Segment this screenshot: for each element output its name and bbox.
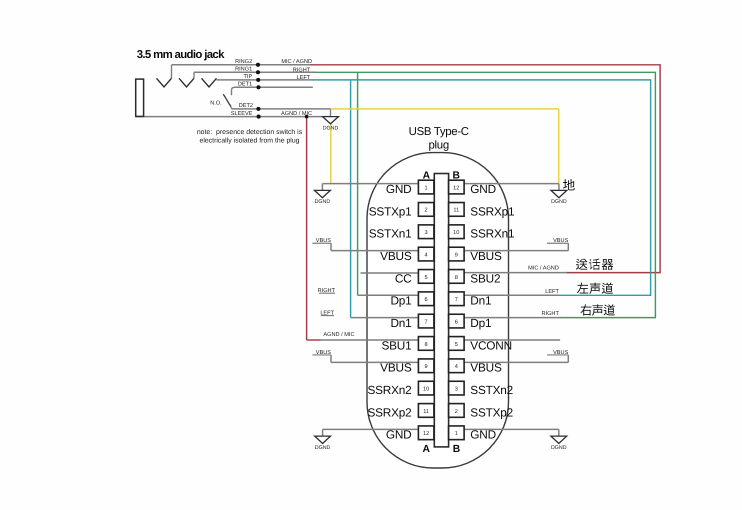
svg-text:8: 8	[425, 342, 428, 348]
svg-text:B: B	[453, 444, 460, 455]
svg-text:B: B	[452, 170, 459, 181]
svg-text:SSTXp1: SSTXp1	[369, 204, 412, 218]
svg-text:DET2: DET2	[239, 103, 253, 109]
svg-text:MIC / AGND: MIC / AGND	[281, 58, 312, 65]
svg-text:VBUS: VBUS	[316, 238, 332, 244]
svg-text:LEFT: LEFT	[545, 289, 559, 295]
svg-text:SSRXn2: SSRXn2	[367, 383, 411, 397]
svg-text:1: 1	[425, 185, 428, 191]
svg-text:VBUS: VBUS	[553, 350, 569, 356]
svg-text:AGND / MIC: AGND / MIC	[281, 110, 312, 117]
svg-text:VBUS: VBUS	[380, 361, 412, 375]
svg-text:11: 11	[423, 409, 429, 415]
svg-text:RIGHT: RIGHT	[293, 68, 311, 74]
svg-text:SSRXp1: SSRXp1	[470, 204, 514, 218]
svg-text:DGND: DGND	[323, 125, 339, 131]
svg-text:SBU1: SBU1	[381, 338, 411, 352]
svg-text:SSTXn2: SSTXn2	[470, 383, 513, 397]
svg-text:6: 6	[425, 297, 428, 303]
svg-text:GND: GND	[386, 182, 412, 196]
svg-text:electrically isolated from the: electrically isolated from the plug	[200, 137, 300, 144]
svg-text:Dp1: Dp1	[390, 294, 411, 308]
svg-text:SSTXp2: SSTXp2	[470, 405, 513, 419]
svg-text:VBUS: VBUS	[470, 249, 502, 263]
svg-text:7: 7	[425, 319, 428, 325]
svg-text:VCONN: VCONN	[470, 338, 512, 352]
svg-text:DGND: DGND	[551, 445, 567, 451]
svg-text:RING1: RING1	[235, 67, 252, 73]
svg-text:SLEEVE: SLEEVE	[231, 111, 253, 117]
svg-text:Dn1: Dn1	[390, 316, 411, 330]
svg-text:Dn1: Dn1	[470, 294, 491, 308]
svg-text:RIGHT: RIGHT	[541, 311, 559, 317]
svg-text:SSRXp2: SSRXp2	[367, 405, 411, 419]
svg-text:VBUS: VBUS	[470, 361, 502, 375]
svg-text:4: 4	[425, 252, 428, 258]
svg-text:3: 3	[425, 230, 428, 236]
svg-text:Dp1: Dp1	[470, 316, 491, 330]
svg-text:USB Type-C: USB Type-C	[409, 126, 469, 138]
svg-text:4: 4	[455, 364, 458, 370]
svg-text:10: 10	[453, 230, 459, 236]
svg-text:RIGHT: RIGHT	[318, 288, 336, 294]
svg-text:A: A	[423, 170, 431, 181]
svg-text:2: 2	[455, 409, 458, 415]
svg-text:7: 7	[455, 297, 458, 303]
svg-text:DGND: DGND	[315, 445, 331, 451]
svg-text:AGND / MIC: AGND / MIC	[323, 331, 354, 338]
svg-text:10: 10	[423, 386, 429, 392]
svg-text:6: 6	[455, 319, 458, 325]
svg-text:DGND: DGND	[315, 199, 331, 205]
svg-text:DET1: DET1	[238, 82, 252, 88]
svg-text:DGND: DGND	[551, 199, 567, 205]
svg-text:GND: GND	[470, 428, 496, 442]
svg-text:VBUS: VBUS	[316, 350, 332, 356]
svg-text:9: 9	[455, 252, 458, 258]
svg-text:1: 1	[455, 431, 458, 437]
svg-text:3: 3	[455, 386, 458, 392]
svg-text:SBU2: SBU2	[470, 271, 500, 285]
svg-text:5: 5	[425, 275, 428, 281]
svg-text:VBUS: VBUS	[380, 249, 412, 263]
svg-text:12: 12	[453, 185, 459, 191]
svg-text:VBUS: VBUS	[553, 238, 569, 244]
svg-text:3.5 mm audio jack: 3.5 mm audio jack	[137, 49, 225, 61]
svg-text:12: 12	[423, 431, 429, 437]
svg-text:CC: CC	[395, 271, 412, 285]
svg-text:11: 11	[453, 208, 459, 214]
svg-text:GND: GND	[470, 182, 496, 196]
svg-text:TIP: TIP	[243, 74, 252, 80]
svg-text:SSTXn1: SSTXn1	[369, 227, 412, 241]
svg-text:2: 2	[425, 208, 428, 214]
svg-text:plug: plug	[429, 139, 449, 151]
svg-text:LEFT: LEFT	[297, 75, 311, 81]
svg-text:note: presence detection swit: note: presence detection switch is	[197, 129, 303, 136]
svg-text:GND: GND	[386, 428, 412, 442]
svg-text:8: 8	[455, 275, 458, 281]
svg-text:5: 5	[455, 342, 458, 348]
svg-text:LEFT: LEFT	[320, 311, 334, 317]
svg-text:A: A	[422, 444, 430, 455]
svg-text:N.O.: N.O.	[210, 100, 222, 106]
svg-text:MIC / AGND: MIC / AGND	[528, 265, 559, 272]
svg-text:SSRXn1: SSRXn1	[470, 227, 514, 241]
svg-text:9: 9	[425, 364, 428, 370]
svg-text:RING2: RING2	[235, 59, 252, 65]
